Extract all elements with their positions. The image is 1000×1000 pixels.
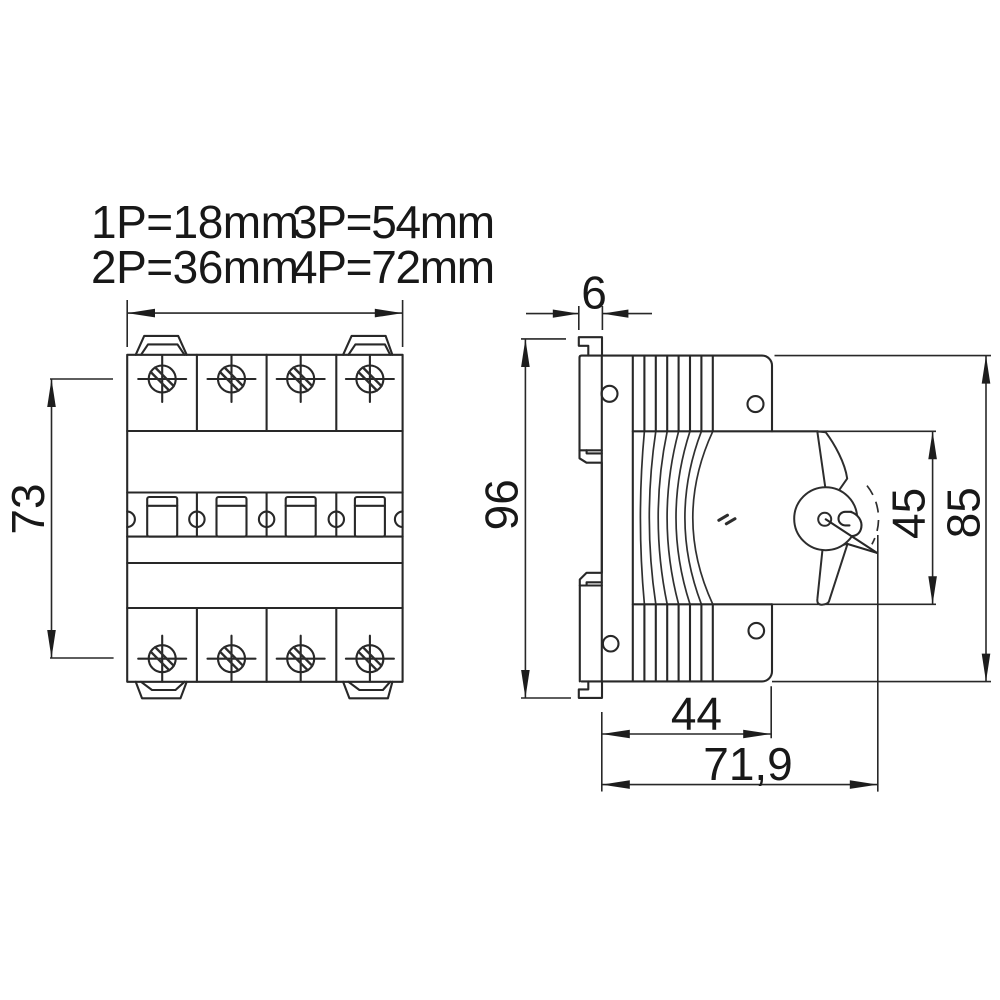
- dimension 44: arrows: [602, 730, 630, 739]
- toggle handle 1: [147, 497, 177, 537]
- terminal screw T3: [277, 356, 325, 402]
- rib first full height: [632, 356, 634, 682]
- dimension 73: line: [51, 379, 53, 658]
- terminal screw B4: [346, 636, 394, 682]
- lever boss circle: [794, 487, 857, 550]
- mold mark: [719, 515, 735, 524]
- rib curves mid section: [640, 431, 644, 604]
- side body top edge and top-right rounded corner: [580, 356, 773, 432]
- strip circle 3: [329, 512, 344, 527]
- DIN plate right edge: [601, 356, 603, 682]
- DIN plate clip mid-upper top edge: [580, 449, 602, 451]
- terminal screw T2: [208, 356, 256, 402]
- svg-text:6: 6: [581, 267, 607, 319]
- front horizontal line: mid lower: [127, 562, 402, 564]
- dimension width top: line: [127, 312, 402, 314]
- bottom mounting tab left inner: [141, 682, 185, 690]
- terminal screw T4: [346, 356, 394, 402]
- DIN clip top: [579, 337, 602, 355]
- svg-text:44: 44: [671, 688, 722, 740]
- lever arm upper edge: [826, 519, 877, 553]
- svg-text:73: 73: [2, 483, 54, 534]
- front body outline: [127, 355, 402, 682]
- dimension 73: arrows: [47, 379, 56, 407]
- dimension 85: extension lines: [772, 356, 991, 682]
- dimension width top: arrows: [127, 309, 155, 318]
- strip circle 1: [189, 512, 204, 527]
- front horizontal line: top of bottom terminal section: [127, 607, 402, 609]
- top mounting tab left outer: [136, 336, 187, 355]
- DIN plate clip mid-upper notch: [587, 450, 602, 453]
- svg-text:96: 96: [476, 479, 528, 530]
- svg-text:2P=36mm: 2P=36mm: [91, 241, 298, 293]
- svg-text:4P=72mm: 4P=72mm: [292, 241, 494, 293]
- side body bottom edge and bottom-right rounded corner: [582, 604, 773, 681]
- top mounting tab right outer: [343, 336, 392, 355]
- bottom flange top line / 45 bottom extension: [633, 603, 772, 605]
- dimension 6: extension ticks: [579, 306, 603, 330]
- ribs top flange: [644, 356, 712, 432]
- front horizontal line: bottom of top terminal section: [127, 430, 402, 432]
- dimension 85: arrows: [982, 356, 991, 384]
- dimension 71,9: arrows: [602, 780, 630, 789]
- terminal screw B3: [277, 636, 325, 682]
- toggle handle 2: [217, 497, 247, 537]
- svg-text:85: 85: [938, 487, 990, 538]
- lever slot tab: [839, 512, 852, 526]
- front horizontal line: toggle strip top: [127, 491, 402, 493]
- lever pivot circle: [818, 513, 831, 526]
- dimension 6: lines: [526, 313, 652, 315]
- DIN plate clip mid-lower notch: [587, 582, 602, 585]
- lever arm lower edge: [847, 544, 877, 553]
- dimension 44: extension lines: [602, 686, 771, 791]
- terminal dividers top section: [197, 355, 336, 431]
- ribs bottom flange: [644, 604, 712, 681]
- strip half circle right: [395, 512, 403, 527]
- screw hole bottom left: [603, 636, 619, 652]
- strip half circle left: [127, 512, 135, 527]
- lever travel dashed arc: [867, 486, 879, 545]
- flange bottom line / 45 top extension: [633, 430, 818, 432]
- dimension 6: arrows: [553, 310, 579, 318]
- dimension 71,9: extension line right: [877, 535, 879, 792]
- toggle handle 3: [286, 497, 316, 537]
- dimension 96: extension lines: [521, 339, 571, 698]
- svg-text:71,9: 71,9: [703, 738, 793, 790]
- front horizontal line: toggle strip bottom: [127, 536, 402, 538]
- bottom mounting tab right inner: [348, 682, 390, 690]
- dimension 96: line: [524, 339, 526, 698]
- lever top blade: [817, 431, 847, 490]
- terminal screw B2: [208, 636, 256, 682]
- dimension 45: arrows: [928, 431, 937, 459]
- toggle handle 4: [355, 497, 385, 537]
- DIN plate clip mid-lower bottom edge: [580, 584, 602, 586]
- strip circle 2: [259, 512, 274, 527]
- screw hole top right: [748, 396, 764, 412]
- dimension 73: extension lines: [50, 379, 114, 658]
- dimension 71,9: line: [602, 784, 878, 786]
- top mounting tab left inner: [141, 344, 185, 354]
- bottom mounting tab left outer: [136, 682, 187, 699]
- toggle strip divider lines: [197, 493, 336, 537]
- DIN plate left profile: [580, 358, 602, 682]
- terminal screw T1: [138, 356, 186, 402]
- screw hole top left: [602, 386, 618, 402]
- lever handle fill: [839, 512, 862, 536]
- lever nose: [851, 512, 862, 536]
- dimension 44: line: [602, 733, 771, 735]
- terminal screw B1: [138, 636, 186, 682]
- DIN clip bottom: [579, 681, 602, 698]
- dimension width top: extension ticks: [127, 300, 402, 347]
- screw hole bottom right: [749, 623, 765, 639]
- bottom mounting tab right outer: [343, 682, 392, 699]
- dimension 45: line: [932, 431, 934, 604]
- dimension 96: arrows: [521, 339, 530, 367]
- top mounting tab right inner: [348, 344, 390, 354]
- svg-text:45: 45: [882, 488, 934, 539]
- lever bottom blade: [817, 544, 847, 605]
- terminal dividers bottom section: [197, 608, 336, 682]
- dimension 85: line: [985, 356, 987, 682]
